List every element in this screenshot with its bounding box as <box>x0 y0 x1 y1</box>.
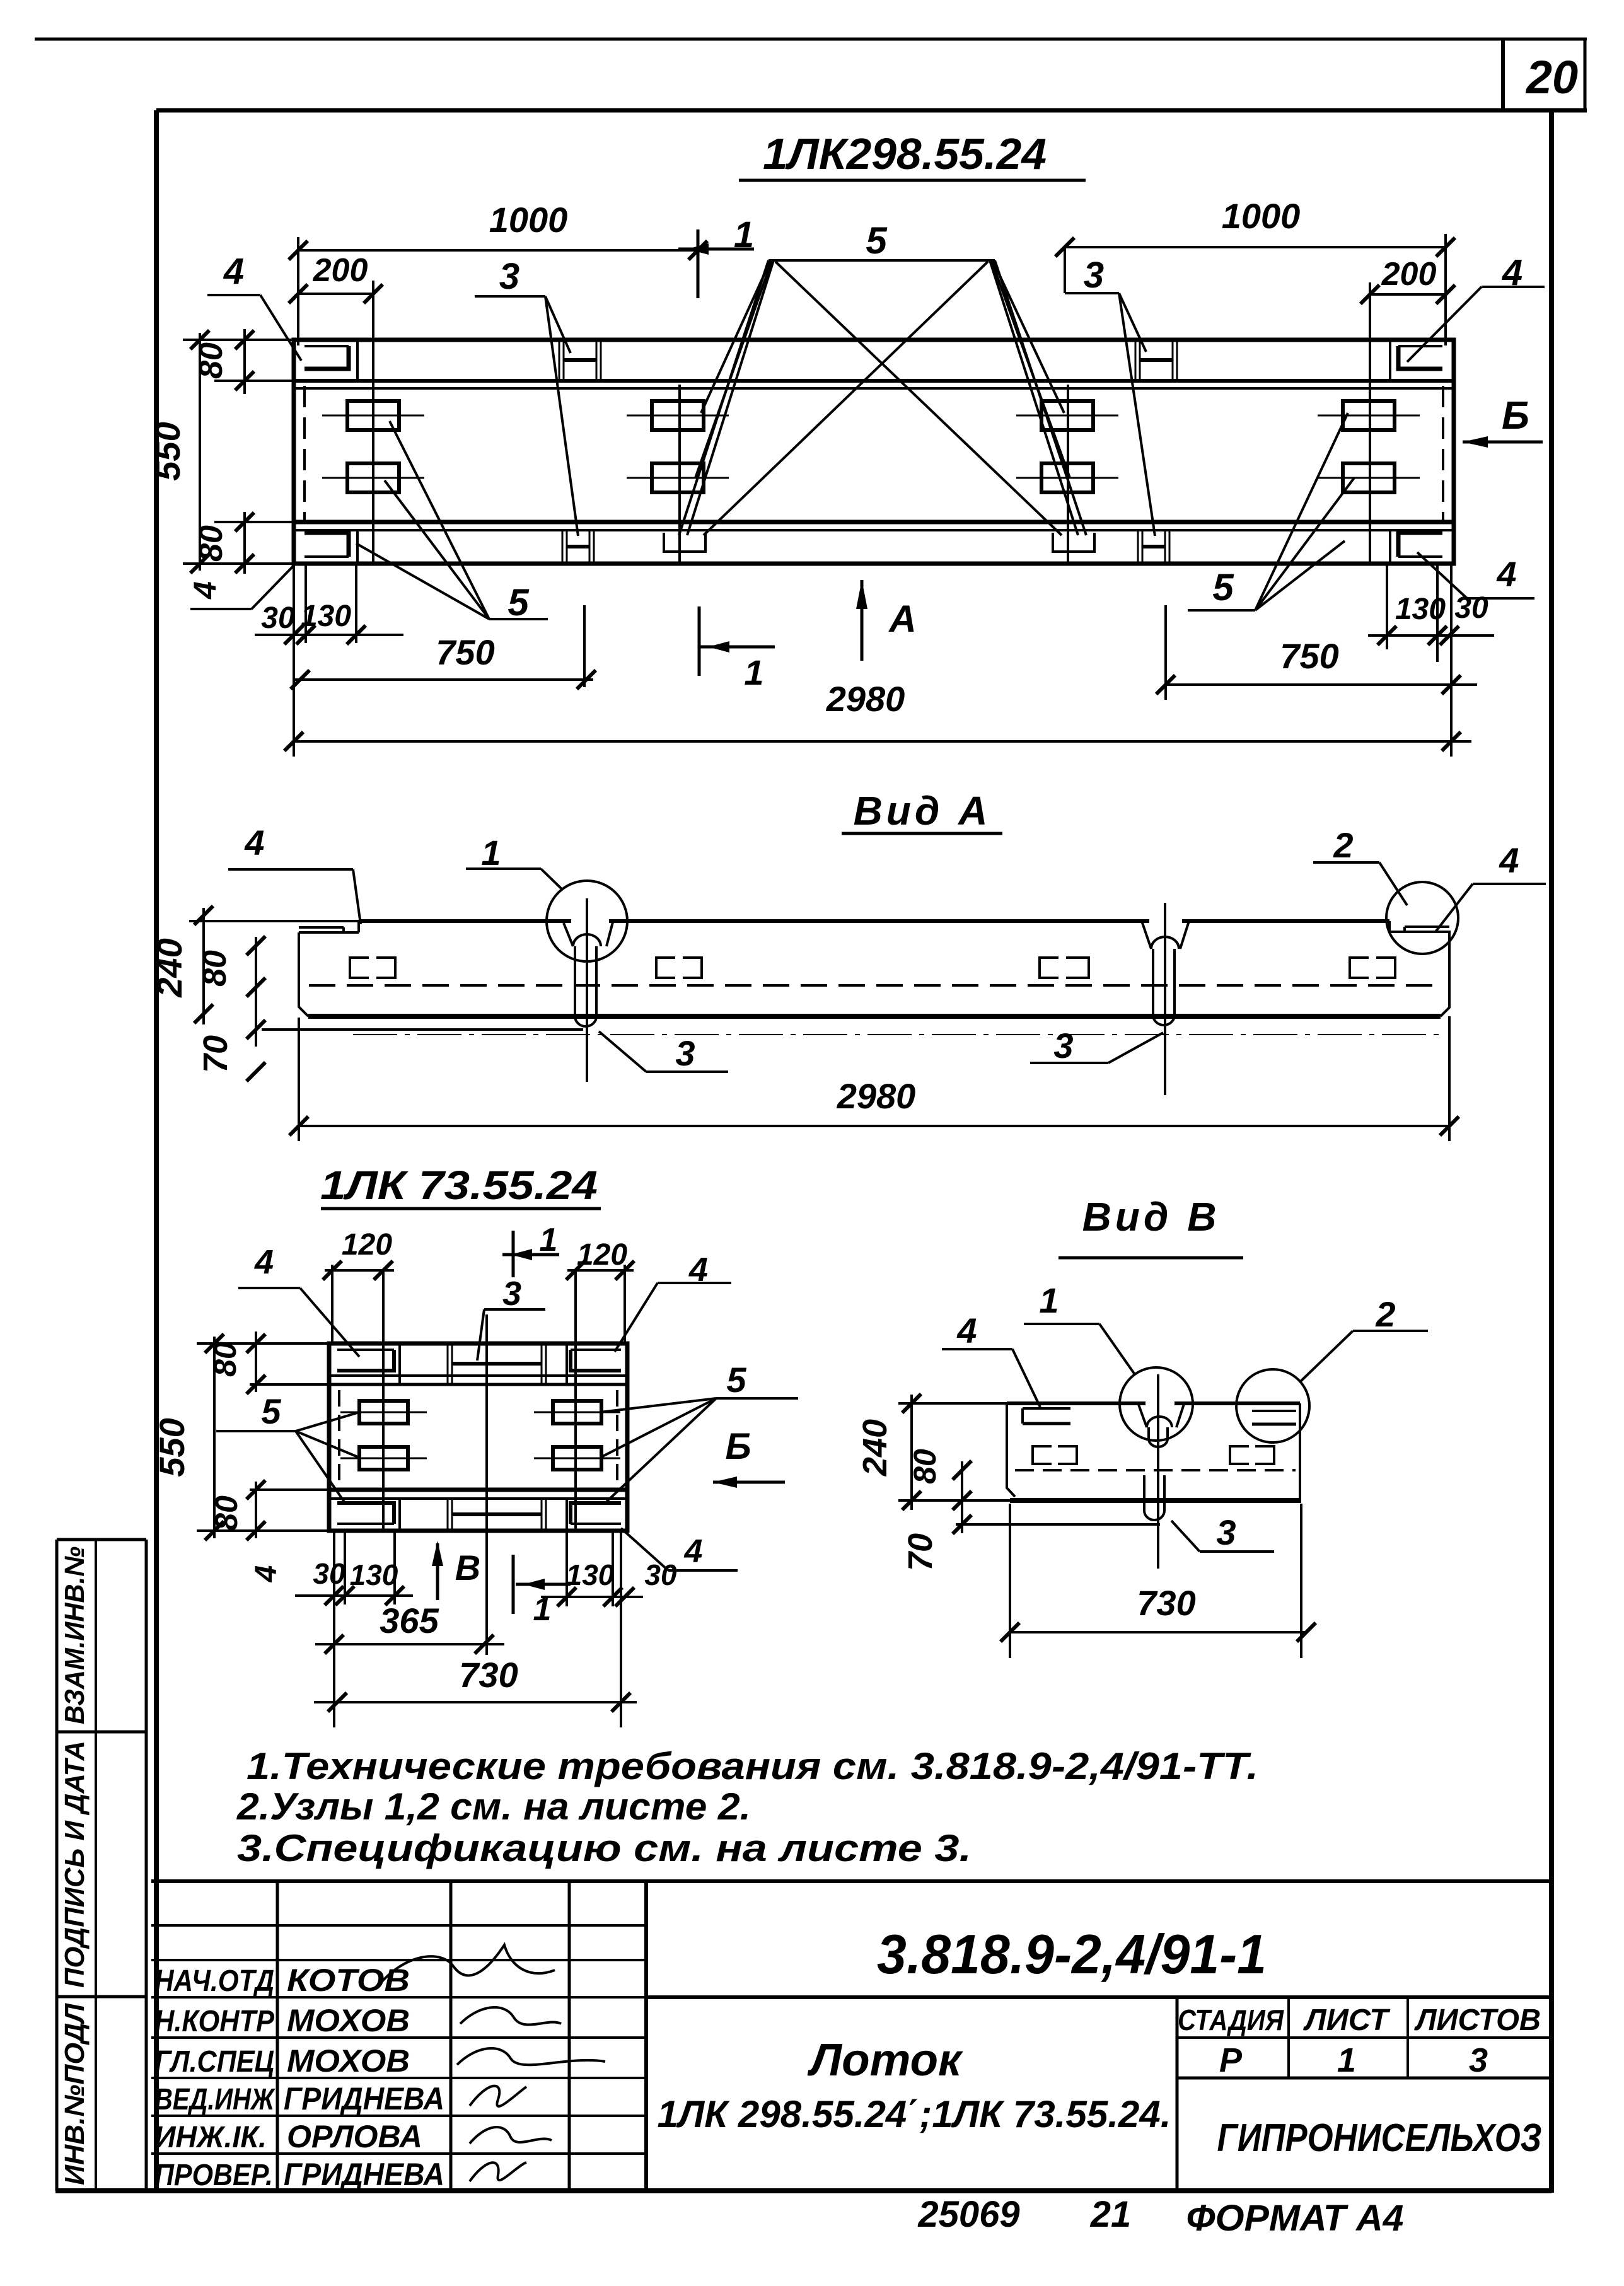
stamp stadia box lines <box>1176 1997 1179 2191</box>
dim 30 130 small left <box>295 1594 413 1597</box>
svg-text:4: 4 <box>684 1533 703 1570</box>
view B detail circle 1 <box>1120 1367 1193 1441</box>
sidebar right line <box>145 1540 148 2191</box>
title block line under doc number <box>646 1995 1551 1999</box>
svg-text:365: 365 <box>380 1601 439 1640</box>
svg-text:1: 1 <box>1039 1280 1058 1320</box>
dim 240 view B <box>910 1395 913 1510</box>
svg-text:2980: 2980 <box>837 1076 916 1116</box>
dim 240 (view A) <box>202 908 205 1024</box>
clamp bottom band left <box>562 531 564 562</box>
svg-text:4: 4 <box>244 823 264 862</box>
small plan hidden dashed left <box>338 1390 340 1487</box>
title block verticals left part <box>276 1881 279 2191</box>
view A bar outline <box>359 919 1389 923</box>
loop anchor bottom band right <box>1053 533 1094 552</box>
svg-text:В: В <box>455 1548 480 1587</box>
embed plate row2 col2 <box>627 477 729 479</box>
svg-text:80: 80 <box>193 342 229 379</box>
dim 730 view B <box>1010 1631 1306 1633</box>
embed plate row1 col2 <box>627 415 729 417</box>
svg-text:240: 240 <box>856 1419 894 1477</box>
svg-text:30: 30 <box>313 1557 345 1590</box>
embed plate row1 col3 <box>1016 415 1118 417</box>
view B hanger top notch <box>1145 1400 1174 1407</box>
svg-text:750: 750 <box>436 632 494 672</box>
svg-text:2: 2 <box>1375 1294 1395 1334</box>
svg-text:ПОДПИСЬ И ДАТА: ПОДПИСЬ И ДАТА <box>59 1741 90 1988</box>
title block row lines left part <box>151 1924 646 1927</box>
dim 80 top-left (plan) <box>243 329 246 394</box>
embed plate row1 col1 <box>322 415 424 417</box>
svg-text:МОХОВ: МОХОВ <box>287 2043 410 2079</box>
svg-text:ИНВ.№ПОДЛ: ИНВ.№ПОДЛ <box>59 2003 90 2185</box>
corner strip edge left (view A) <box>299 926 344 929</box>
signature row 3 <box>457 2048 605 2065</box>
corner strip top-right <box>1398 346 1442 369</box>
svg-text:Н.КОНТР: Н.КОНТР <box>154 2005 275 2038</box>
svg-text:ИНЖ.IК.: ИНЖ.IК. <box>154 2121 267 2154</box>
view A chain line <box>353 1034 1444 1035</box>
dim 1000 right <box>1065 246 1446 248</box>
svg-text:4: 4 <box>254 1243 274 1281</box>
svg-text:1ЛК298.55.24: 1ЛК298.55.24 <box>763 129 1047 178</box>
embed plate row1 col4 <box>1318 415 1420 417</box>
svg-text:ОРЛОВА: ОРЛОВА <box>287 2119 422 2154</box>
svg-text:МОХОВ: МОХОВ <box>287 2003 410 2038</box>
svg-text:130: 130 <box>566 1558 615 1591</box>
corner strip small TR <box>571 1350 621 1371</box>
svg-text:3.Спецификацию см. на листе 3.: 3.Спецификацию см. на листе 3. <box>237 1827 971 1869</box>
small plan embed TR <box>534 1412 620 1413</box>
hanger clamp top band right <box>1135 341 1137 380</box>
svg-text:130: 130 <box>350 1558 398 1591</box>
embed plate row2 col4 <box>1318 477 1420 479</box>
view B dashed centreline <box>1015 1469 1296 1471</box>
svg-text:4: 4 <box>250 1565 283 1583</box>
loop anchor bottom band left <box>664 533 705 552</box>
svg-text:3.818.9-2,4/91-1: 3.818.9-2,4/91-1 <box>877 1923 1267 1985</box>
corner strip edge right (view A) <box>1405 925 1449 928</box>
section mark 1 top <box>697 229 700 298</box>
hanger clamp small top <box>447 1345 449 1383</box>
view B detail circle 2 <box>1236 1369 1309 1442</box>
svg-text:ЛИСТОВ: ЛИСТОВ <box>1414 2004 1541 2037</box>
plan hidden wall dashed right <box>1442 386 1444 521</box>
svg-text:80: 80 <box>193 525 229 562</box>
sidebar section line top <box>57 1538 146 1541</box>
svg-text:ВЗАМ.ИНВ.№: ВЗАМ.ИНВ.№ <box>59 1546 90 1724</box>
small plan outline <box>329 1343 627 1531</box>
svg-text:Лоток: Лоток <box>807 2035 964 2086</box>
dim 80 view B <box>961 1461 963 1510</box>
plan hidden wall dashed left <box>303 386 306 521</box>
view arrow В small <box>436 1543 439 1600</box>
dim 70 (view A) <box>246 1020 265 1039</box>
svg-text:80: 80 <box>209 1495 244 1531</box>
plan top wall inner line <box>294 379 1454 383</box>
small plan top band lines <box>329 1374 627 1377</box>
plan bottom wall inner line <box>294 520 1454 525</box>
hanger loop 2 (view A) <box>1149 917 1182 924</box>
svg-text:Р: Р <box>1219 2041 1243 2079</box>
svg-text:Вид А: Вид А <box>854 788 992 833</box>
svg-text:1: 1 <box>1337 2041 1356 2079</box>
svg-text:30: 30 <box>1454 591 1488 625</box>
svg-text:3: 3 <box>675 1033 695 1073</box>
svg-text:21: 21 <box>1090 2194 1132 2235</box>
embed plate row2 col1 <box>322 477 424 479</box>
hanger clamp top band left <box>559 341 560 380</box>
view A dashed centreline <box>309 984 1444 987</box>
dim 550 left (plan) <box>199 333 201 571</box>
dim 750 right <box>1166 683 1477 686</box>
svg-text:ФОРМАТ А4: ФОРМАТ А4 <box>1186 2198 1404 2239</box>
svg-text:730: 730 <box>459 1655 518 1695</box>
svg-text:5: 5 <box>507 581 530 624</box>
svg-text:ПРОВЕР.: ПРОВЕР. <box>154 2159 273 2192</box>
hanger clamp small bottom <box>447 1500 449 1529</box>
plan bottom wall second line <box>294 529 1454 531</box>
detail circle 1 <box>547 881 627 961</box>
dim 120 left small <box>325 1269 394 1272</box>
svg-text:Вид В: Вид В <box>1082 1194 1221 1239</box>
svg-text:ГРИДНЕВА: ГРИДНЕВА <box>284 2081 444 2116</box>
dim 750 left <box>294 678 593 681</box>
svg-text:5: 5 <box>866 219 888 262</box>
svg-text:4: 4 <box>187 581 223 600</box>
svg-text:3: 3 <box>502 1275 521 1313</box>
svg-text:1ЛК 73.55.24: 1ЛК 73.55.24 <box>320 1163 598 1208</box>
small plan centre axis <box>485 1314 488 1655</box>
sidebar divider <box>95 1540 97 2191</box>
svg-text:80: 80 <box>207 1342 243 1377</box>
svg-text:ГРИДНЕВА: ГРИДНЕВА <box>284 2157 444 2192</box>
section mark 1 bottom <box>698 606 701 676</box>
svg-text:ГИПРОНИСЕЛЬХОЗ: ГИПРОНИСЕЛЬХОЗ <box>1217 2116 1542 2160</box>
dim 130 30 right <box>1368 634 1494 637</box>
svg-text:3: 3 <box>499 256 519 297</box>
svg-text:130: 130 <box>301 600 351 633</box>
small plan bottom band lines <box>329 1488 627 1492</box>
svg-text:Б: Б <box>1502 394 1529 438</box>
small plan embed TL <box>340 1412 427 1413</box>
svg-text:А: А <box>888 598 916 640</box>
dim 2980 (view A) <box>299 1125 1449 1127</box>
svg-text:730: 730 <box>1137 1583 1195 1623</box>
embed axis line left <box>372 281 374 562</box>
svg-text:80: 80 <box>907 1449 942 1484</box>
svg-text:НАЧ.ОТД: НАЧ.ОТД <box>154 1964 274 1998</box>
dim 80 (view A) <box>255 937 257 1047</box>
svg-text:1: 1 <box>481 833 501 873</box>
view A embed bracket 4 <box>1350 958 1395 978</box>
drawing frame bottom <box>55 2188 1551 2193</box>
svg-text:4: 4 <box>1496 554 1516 594</box>
corner strip small BR <box>571 1503 621 1524</box>
svg-text:20: 20 <box>1525 51 1578 103</box>
sidebar section line mid1 <box>57 1731 146 1734</box>
svg-text:120: 120 <box>577 1238 627 1272</box>
sidebar section line mid2 <box>57 1995 146 1999</box>
svg-text:1000: 1000 <box>489 200 568 240</box>
svg-text:1: 1 <box>734 214 754 255</box>
small plan embed BR <box>534 1458 620 1459</box>
hanger loop 1 (view A) <box>571 917 609 924</box>
view B body outline <box>1007 1401 1300 1405</box>
dim 200 left <box>298 293 373 295</box>
corner strip top-left <box>304 346 349 369</box>
page number box <box>1501 39 1505 110</box>
svg-text:ВЕД.ИНЖ: ВЕД.ИНЖ <box>154 2083 275 2116</box>
svg-text:200: 200 <box>313 252 368 289</box>
svg-text:4: 4 <box>956 1311 977 1350</box>
embed axis line right <box>1369 282 1371 562</box>
sheet top rule <box>35 38 1587 41</box>
dim 30 130 left <box>255 634 403 636</box>
view A embed bracket 3 <box>1040 958 1089 978</box>
dim 130 30 small right <box>541 1596 643 1598</box>
corner strip bottom-right <box>1398 533 1442 557</box>
svg-text:4: 4 <box>223 251 244 292</box>
svg-text:5: 5 <box>261 1391 281 1431</box>
svg-text:1000: 1000 <box>1222 196 1301 236</box>
corner strip small TL <box>337 1350 394 1371</box>
svg-text:70: 70 <box>902 1533 939 1571</box>
svg-text:200: 200 <box>1381 256 1437 293</box>
svg-text:750: 750 <box>1280 636 1338 676</box>
svg-text:550: 550 <box>148 422 187 480</box>
dim 550 small <box>213 1337 216 1538</box>
svg-text:1ЛК 298.55.24΄;1ЛК 73.55.24.: 1ЛК 298.55.24΄;1ЛК 73.55.24. <box>658 2093 1171 2135</box>
corner strip bottom-left <box>304 533 349 557</box>
svg-text:3: 3 <box>1053 1026 1073 1065</box>
svg-text:3: 3 <box>1469 2041 1488 2079</box>
signature row 5 <box>470 2127 552 2144</box>
svg-text:240: 240 <box>149 938 189 997</box>
dim 80 small top <box>255 1332 257 1392</box>
svg-text:5: 5 <box>1212 566 1234 608</box>
svg-text:СТАДИЯ: СТАДИЯ <box>1178 2004 1284 2036</box>
view B embed bracket left <box>1033 1446 1077 1464</box>
small plan hidden dashed right <box>616 1390 618 1487</box>
signature row 2 <box>460 2007 561 2025</box>
svg-text:1.Технические требования см. 3: 1.Технические требования см. 3.818.9-2,4… <box>246 1745 1258 1787</box>
drawing frame left <box>154 110 159 2193</box>
section mark 1 small top <box>512 1231 515 1277</box>
signature row 1 <box>378 1945 555 1986</box>
svg-text:1: 1 <box>540 1222 558 1258</box>
view B hanger lower loop <box>1144 1475 1164 1520</box>
svg-text:2980: 2980 <box>826 679 905 719</box>
embed axis line col3 <box>1067 385 1069 562</box>
dim 1000 left <box>298 249 698 252</box>
svg-text:70: 70 <box>197 1035 235 1073</box>
dim 730 small <box>314 1701 637 1703</box>
sidebar outer line <box>55 1540 59 2191</box>
section mark 1 small bottom <box>512 1555 515 1614</box>
svg-text:3: 3 <box>1084 255 1104 296</box>
svg-text:30: 30 <box>261 601 295 635</box>
dim 70 view B <box>953 1515 971 1534</box>
drawing frame right <box>1549 110 1554 2193</box>
view B embed bracket right <box>1230 1446 1274 1464</box>
signature row 6 <box>470 2162 526 2181</box>
dim 200 right <box>1370 293 1446 296</box>
lifting loop 5 flattened (trapezoid) <box>768 259 995 262</box>
view arrow A <box>861 580 864 661</box>
svg-text:2: 2 <box>1333 825 1353 865</box>
dim 80 bottom-left (plan) <box>243 512 246 574</box>
corner strip small BL <box>337 1503 394 1524</box>
embed plate row2 col3 <box>1016 477 1118 479</box>
small plan embed axes <box>382 1270 385 1531</box>
plan outline <box>294 340 1454 564</box>
title block top line <box>151 1879 1551 1883</box>
view A embed bracket 1 <box>350 958 395 978</box>
svg-text:1: 1 <box>744 653 763 692</box>
view A embed bracket 2 <box>656 958 702 978</box>
sheet second rule / page box bottom <box>156 108 1587 113</box>
svg-text:4: 4 <box>1499 840 1519 880</box>
clamp bottom band right <box>1137 531 1139 562</box>
svg-text:2.Узлы 1,2 см. на листе 2.: 2.Узлы 1,2 см. на листе 2. <box>236 1785 751 1828</box>
dim 80 small bottom <box>255 1482 257 1538</box>
svg-text:80: 80 <box>197 950 233 987</box>
signature row 4 <box>470 2086 526 2106</box>
dim 365 small <box>315 1643 504 1645</box>
embed axis line col2 <box>678 385 681 562</box>
svg-text:ЛИСТ: ЛИСТ <box>1303 2004 1391 2037</box>
svg-text:25069: 25069 <box>917 2194 1019 2235</box>
dim 2980 (plan) <box>294 740 1471 743</box>
svg-text:3: 3 <box>1216 1512 1236 1552</box>
svg-text:Б: Б <box>725 1426 751 1467</box>
corner strip edge right (view B) <box>1252 1411 1296 1424</box>
corner strip edge left (view B) <box>1023 1408 1070 1424</box>
svg-text:ГЛ.СПЕЦ: ГЛ.СПЕЦ <box>154 2045 274 2079</box>
detail circle 2 <box>1386 882 1458 954</box>
svg-text:550: 550 <box>152 1418 192 1477</box>
svg-text:5: 5 <box>726 1360 746 1400</box>
svg-text:120: 120 <box>342 1228 392 1262</box>
small plan embed BL <box>340 1458 427 1459</box>
dim 120 right small <box>567 1269 634 1272</box>
svg-text:КОТОВ: КОТОВ <box>287 1963 410 1998</box>
